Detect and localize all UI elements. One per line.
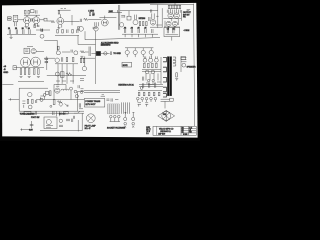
pot VR5 [149, 50, 153, 54]
socket circle S1 [137, 97, 140, 100]
vertical x72 [71, 15, 73, 25]
capacitor C8 [29, 29, 30, 34]
pin pair marks a [138, 103, 149, 107]
svg-text:117V 60CY: 117V 60CY [85, 104, 96, 106]
resistor R28 [45, 61, 48, 63]
title left column [156, 126, 158, 135]
transistor Q14 [151, 70, 155, 74]
title divider v2 [188, 126, 190, 135]
resistor R37 [176, 73, 178, 77]
chassis box left [19, 88, 48, 111]
bus row2 mid [55, 34, 79, 36]
vibrato box [164, 27, 180, 36]
resistor R50 [158, 92, 160, 96]
speaker jack circle [182, 63, 186, 67]
V8a internals [32, 50, 35, 52]
long wire y113 [20, 112, 84, 114]
power transformer label box [84, 98, 104, 107]
resistor R27 [45, 58, 48, 60]
tube V9 [149, 58, 153, 62]
small circle left [50, 105, 52, 107]
knot bottom wires [164, 26, 180, 30]
ribbon columns [122, 102, 130, 113]
cap row right: capacitor C11 [124, 29, 125, 33]
capacitor C25 [142, 83, 143, 88]
svg-text:20: 20 [8, 28, 10, 30]
transistor Q20 [75, 95, 78, 98]
V6 internals [152, 21, 155, 23]
resistor R30 [72, 57, 74, 61]
transformer T1 primary windings [163, 57, 166, 97]
capacitor C6 [16, 29, 17, 34]
wire y129.6 [20, 128, 32, 130]
triode V1B [33, 17, 40, 24]
wire pots bus [125, 47, 153, 49]
resistor R29 [66, 57, 68, 61]
ground ch2 [80, 56, 83, 57]
triode V5 [133, 20, 138, 25]
hatch in bias box [170, 5, 180, 9]
resistor R6 [89, 12, 90, 15]
pi tube V3 [174, 13, 179, 18]
svg-text:20: 20 [15, 28, 17, 30]
resistor R44 [24, 112, 31, 115]
vertical x161 [160, 57, 162, 84]
scan background [0, 0, 200, 141]
wire into box [8, 98, 19, 100]
resistor R26 [34, 69, 36, 75]
channel2 mid components [85, 47, 96, 57]
bus row2 right [122, 33, 158, 35]
rosette cross [162, 110, 170, 121]
transformer T1 core bar 1 [167, 57, 169, 96]
pot VR1 [40, 34, 44, 38]
plug symbols row [110, 115, 113, 118]
pot VR3 [133, 50, 137, 54]
jack J3 [24, 48, 29, 53]
tube socket rosette [162, 112, 171, 121]
capacitor C14 [145, 29, 146, 33]
bias label box [168, 5, 181, 9]
socket chart grid [107, 104, 119, 114]
socket circle S2 [141, 97, 144, 100]
pot VR7 [94, 27, 98, 31]
resistor R4 [58, 10, 60, 14]
fuse F2 [132, 117, 135, 120]
capacitor C27 [154, 83, 155, 88]
strokes above output tubes [144, 56, 157, 58]
pilot circle PL2 [40, 98, 43, 101]
small parts right of PT box [106, 98, 118, 101]
svg-text:.02: .02 [130, 28, 133, 30]
cap C1b [37, 25, 40, 26]
plug P2 [132, 122, 135, 125]
triode V1A [24, 17, 31, 24]
input jack J1 [7, 17, 11, 18]
resistor R48 [148, 92, 150, 96]
resistor R1 [25, 10, 26, 14]
power tube V4 [21, 57, 31, 67]
speaker terminal ticks [181, 57, 186, 61]
long bus y38.5 sloped [85, 38, 160, 40]
wire y75 right [47, 76, 86, 81]
bus above V2A [58, 9, 71, 11]
V3 stem up [104, 16, 106, 20]
box bottom bus [19, 110, 84, 112]
vertical drops mid [58, 64, 73, 84]
cap C21 [101, 95, 105, 96]
svg-text:.05: .05 [137, 28, 140, 30]
ground V1A cathode [25, 27, 28, 29]
long bus y130.7 [40, 113, 82, 131]
resistor R2 [28, 10, 29, 14]
pot stems [127, 48, 151, 57]
wire y12.6 [108, 12, 122, 14]
pot VR6 [79, 26, 84, 31]
stem below box [171, 37, 173, 41]
resistor R31 [60, 72, 64, 77]
tube internals V4 [23, 60, 28, 65]
tube V10 [155, 58, 159, 62]
title row line1 [181, 128, 196, 130]
heater bus wires [139, 85, 163, 87]
wire J1 to V1A [18, 19, 24, 21]
wire box up [174, 3, 176, 5]
svg-text:10: 10 [22, 28, 24, 30]
resistor R39 [32, 99, 33, 103]
capacitor C19 [143, 77, 144, 81]
meter circle [46, 120, 51, 125]
diode circle D1 [43, 94, 46, 97]
svg-text:GND: GND [3, 72, 8, 74]
small marks bottom mid [56, 80, 74, 82]
box on bus [127, 16, 131, 20]
resistor R45 [64, 112, 69, 114]
resistor R19 [72, 29, 74, 33]
wire y90.5 [138, 90, 162, 92]
transformer secondary loops [173, 57, 176, 66]
capacitor C16 [167, 30, 168, 34]
tick marks near border [187, 9, 191, 10]
switch SW2 [74, 111, 80, 113]
resistor R21 [58, 46, 60, 49]
output tube V4b [172, 21, 177, 26]
small circle O2 [152, 79, 154, 81]
junction circle J [70, 87, 73, 90]
transistor Q16 [28, 105, 32, 109]
rectifier tube V7b [55, 88, 60, 93]
transistor Q13 [145, 70, 149, 74]
output tube V4a [166, 21, 171, 26]
svg-text:CK: CK [182, 132, 184, 134]
bus y63.8 [55, 63, 78, 65]
capacitor C7 [23, 29, 24, 34]
vertical x46.8 [46, 56, 48, 70]
svg-text:CH: CH [172, 28, 174, 30]
box B1 [46, 91, 49, 94]
resistor R11 [139, 22, 140, 26]
V7b internals [56, 89, 58, 91]
zigzag R43 [57, 101, 62, 103]
wires down to y116 [57, 111, 60, 116]
speaker output vertical [180, 56, 182, 72]
transistor Q12 [55, 72, 59, 76]
junction circle heater [140, 87, 143, 90]
resistor R36 [156, 63, 158, 68]
svg-text:CH: CH [167, 28, 169, 30]
zigzag R32 [66, 73, 72, 76]
plug P1 [124, 122, 127, 125]
vertical pair x118.6 x119.8 [119, 5, 120, 30]
zigzag R3 [50, 20, 55, 22]
cathode stems [26, 23, 38, 26]
triode V3 [101, 19, 108, 26]
svg-text:SPEAKER: SPEAKER [187, 66, 197, 69]
switch SW1 [124, 112, 134, 117]
long vertical x57.2 [56, 40, 58, 51]
resistor R38 [27, 99, 29, 103]
box above tubes [31, 10, 34, 13]
resistor R26b [38, 69, 40, 75]
capacitor C17 [173, 30, 174, 34]
wire rect top [44, 57, 95, 59]
resistor R12b [146, 22, 147, 26]
internals output tubes [167, 23, 176, 25]
transistor Q15 [28, 92, 32, 96]
wire to V2A [47, 20, 50, 22]
drawing right border line [194, 4, 195, 126]
capacitor C13 [138, 29, 139, 33]
capacitor C1 [36, 10, 37, 13]
bottom marks output [146, 82, 161, 85]
arrow mark [65, 104, 69, 107]
jack shield box [13, 15, 18, 21]
phase splitter tube V6 [55, 58, 59, 62]
resistor R25 [28, 69, 30, 75]
title row line3 [181, 132, 196, 134]
meter internals [46, 126, 53, 128]
knot wires [163, 10, 181, 27]
vertical pair top right [78, 85, 79, 88]
capacitor C12 [131, 29, 132, 33]
resistor under jack [15, 22, 17, 26]
wire row2 right [36, 28, 50, 31]
parts left of knot [151, 9, 159, 16]
bus y81.5 left [18, 81, 44, 83]
small circle O1 [147, 79, 149, 81]
svg-text:10: 10 [28, 28, 30, 30]
wire pot to bus [44, 39, 57, 41]
tick x117.5 [117, 10, 119, 13]
parts below V3 [95, 22, 99, 26]
small triode V4 [119, 23, 123, 27]
vertical pair lower right [79, 103, 80, 107]
tube internals V5 [33, 59, 38, 64]
V5 strokes above [134, 15, 136, 20]
svg-text:4 OHM: 4 OHM [184, 30, 190, 32]
ground row2 [10, 35, 13, 39]
pot VR7 marks [93, 27, 95, 29]
V2A stem [59, 14, 61, 17]
parts right of vertical pair [121, 15, 125, 18]
title divider v1 [180, 126, 182, 135]
capacitor C20 [36, 100, 37, 103]
vertical x78 [77, 120, 79, 131]
terminal box [181, 57, 186, 60]
diamond mark [59, 102, 63, 106]
pi tube V2 [168, 13, 173, 18]
svg-text:SOCKET VOLTAGES: SOCKET VOLTAGES [107, 126, 126, 129]
svg-text:S 1160: S 1160 [183, 134, 188, 136]
cathode parts V1B [34, 25, 36, 28]
white schematic page [2, 3, 198, 138]
wire stage2 out [64, 20, 80, 22]
resistor R47 [143, 92, 145, 96]
vertical x95.5 [95, 31, 97, 84]
power bus lines y90 [84, 91, 120, 93]
parts right of meter [66, 119, 73, 122]
hooks below bus [125, 34, 152, 37]
socket circle S5 [154, 97, 157, 100]
ground under R37 [175, 78, 178, 80]
vertical x162 [161, 8, 163, 28]
plate wire bus [24, 14, 40, 16]
triode V2A [57, 18, 64, 25]
jack inner mark [14, 17, 16, 19]
power tube V5 [31, 57, 41, 67]
resistor R33 [144, 63, 146, 68]
electrolytic C24 (dark) [96, 51, 100, 55]
V1B internals [34, 19, 38, 22]
vertical x78 drop [78, 35, 96, 44]
tube stems up [27, 15, 36, 17]
svg-text:75 W: 75 W [146, 131, 150, 133]
capacitor C15 [152, 29, 153, 33]
vertical x157.8 [157, 5, 159, 28]
ground below V3 [94, 27, 97, 28]
resistor R23 [20, 69, 22, 75]
svg-text:.02: .02 [124, 28, 127, 30]
resistor R41 [49, 91, 51, 96]
wire in box [165, 34, 178, 36]
parts ch2 b [62, 50, 72, 53]
resistor R35 [152, 63, 154, 68]
zigzag R5 [84, 18, 89, 20]
bus row2 left [7, 34, 36, 36]
svg-text:HEATERS 6.3V AC: HEATERS 6.3V AC [118, 84, 134, 87]
rectifier tube V7 [82, 66, 86, 70]
cathode parts V2A [57, 25, 61, 29]
internals V2 V3 [169, 14, 178, 16]
svg-text:WH: WH [189, 132, 191, 134]
wire tube cathodes [14, 67, 44, 69]
wires output cluster [142, 70, 161, 81]
capacitor C18 [61, 57, 62, 62]
capacitor C4 [149, 17, 150, 21]
capacitor C9 [67, 29, 68, 33]
parts ch2 c [101, 51, 112, 55]
V6 strokes above [152, 13, 154, 19]
title block frame [153, 126, 196, 135]
transistor Q9 [56, 51, 60, 55]
resistor R7a [80, 59, 81, 63]
vertical pair x73.4 [73, 116, 74, 119]
svg-text:CHICAGO ILL: CHICAGO ILL [160, 130, 171, 133]
box stem [128, 11, 130, 17]
V2A internals [59, 19, 63, 22]
driver tube V6 [150, 20, 156, 26]
svg-text:.05: .05 [144, 28, 147, 30]
resistor R7b [83, 59, 84, 63]
fuse F1 [124, 117, 127, 120]
svg-text:FOOT SW: FOOT SW [31, 117, 40, 119]
rosette top cluster [161, 99, 170, 108]
pot marks above [41, 29, 43, 32]
parts right power [79, 89, 84, 109]
svg-text:6V6: 6V6 [163, 114, 166, 116]
svg-text:NO. 47: NO. 47 [85, 128, 91, 130]
socket stems [138, 100, 156, 102]
vertical x77.5 [77, 92, 79, 111]
output stage cluster: tube V8 [143, 58, 147, 62]
resistor R42 [53, 100, 55, 105]
svg-text:JB: JB [189, 130, 191, 132]
note box mid right [122, 62, 132, 67]
svg-text:PILOT LAMP: PILOT LAMP [85, 125, 97, 128]
resistor R49 [153, 92, 155, 96]
choke L1 [61, 89, 69, 90]
wire left stub [2, 84, 13, 86]
socket circle S4 [150, 97, 153, 100]
junction circle meter [59, 119, 62, 122]
resistor R12 [143, 22, 144, 26]
parts on y113 wire [35, 111, 58, 115]
vertical x31.5 [31, 121, 33, 128]
resistor R34 [148, 63, 150, 68]
pot VR2 [125, 50, 129, 54]
crosses under plugs [124, 126, 134, 128]
wire stage1 out [40, 19, 44, 21]
jack J2 [44, 18, 47, 21]
capacitor C2 [80, 19, 81, 22]
small parts left box [22, 101, 25, 108]
svg-text:POWER TRANS: POWER TRANS [85, 100, 101, 103]
small box above rosette [170, 98, 173, 101]
vertical x85 [84, 31, 86, 66]
transistor Q10 [74, 51, 78, 55]
wires bottom right corner row1 [150, 25, 162, 27]
svg-text:1-62: 1-62 [189, 127, 192, 129]
capacitor C5 [9, 29, 10, 34]
capacitor C10 [77, 29, 78, 33]
label above J3 [27, 46, 33, 48]
capacitor C26 [148, 83, 149, 88]
cap C22 [30, 124, 34, 125]
parts between tubes [31, 18, 32, 22]
resistor R46 [138, 92, 140, 96]
wire links power [40, 85, 84, 100]
wire tick left [39, 97, 41, 99]
svg-text:.02: .02 [92, 14, 95, 16]
small box left [13, 66, 16, 70]
wire to V3 [88, 19, 101, 21]
ground mid left [20, 77, 40, 78]
resistor R7 [93, 12, 94, 15]
svg-text:TO GRID: TO GRID [113, 53, 121, 55]
top wire y4.5 [150, 3, 194, 5]
pilot lamp PL1 [86, 114, 95, 123]
label marks above bus [61, 8, 66, 10]
